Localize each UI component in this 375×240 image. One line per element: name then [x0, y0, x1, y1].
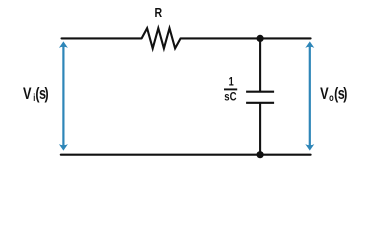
- label Vo(s): [320, 84, 347, 103]
- svg-text:1: 1: [229, 77, 234, 89]
- svg-text:): ): [343, 85, 347, 103]
- label R: [155, 5, 163, 20]
- value label 1/sC: [224, 77, 237, 104]
- svg-text:V: V: [23, 84, 31, 103]
- svg-text:R: R: [155, 5, 163, 20]
- annotation arrow Vi(s) (left double-headed): [59, 41, 68, 150]
- wire bottom: [61, 154, 311, 156]
- svg-text:): ): [44, 85, 48, 103]
- label Vi(s): [23, 84, 49, 103]
- annotation arrow Vo(s) (right double-headed): [305, 41, 314, 150]
- capacitor C (plates): [246, 92, 274, 103]
- wire top-left segment: [62, 37, 142, 39]
- resistor R (zigzag): [142, 28, 181, 48]
- svg-text:V: V: [320, 84, 328, 103]
- wire capacitor bottom stub: [259, 103, 261, 155]
- wire top-right segment: [181, 37, 311, 39]
- node bottom junction: [257, 151, 264, 158]
- node top junction: [257, 35, 264, 42]
- wire capacitor top stub: [259, 38, 261, 91]
- svg-text:sC: sC: [224, 90, 236, 103]
